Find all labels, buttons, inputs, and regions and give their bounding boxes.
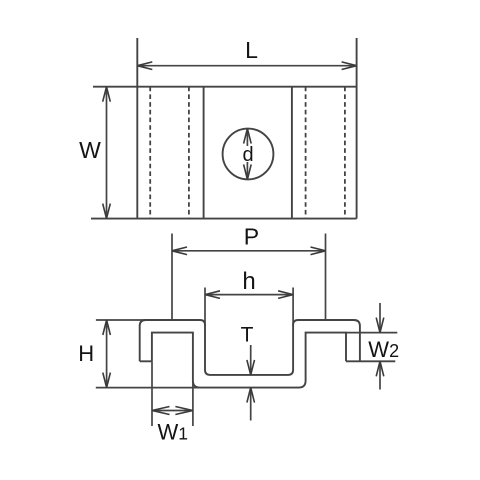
h extension line left — [204, 288, 206, 327]
dimension T lower arrow — [250, 388, 252, 421]
dimension T upper arrow — [250, 345, 252, 375]
dimension W1 line — [152, 410, 193, 412]
W2 top extension line — [346, 332, 397, 334]
top view: slot dashed line 3 — [305, 87, 307, 219]
W1 extension line left — [151, 361, 153, 426]
svg-text:W: W — [79, 137, 101, 163]
dimension W line — [106, 87, 108, 219]
section: outer top-surface contour — [140, 320, 360, 375]
top view: right bend line — [291, 87, 293, 219]
top view: slot dashed line 2 — [188, 87, 190, 219]
hole circle d — [223, 129, 274, 180]
top view: slot dashed line 1 — [149, 87, 151, 219]
svg-text:H: H — [78, 341, 94, 366]
top view: left bend line — [203, 87, 205, 219]
dimension h line — [205, 294, 293, 296]
W1 extension line right — [192, 381, 194, 426]
svg-text:W1: W1 — [158, 420, 189, 445]
H bottom extension line — [96, 387, 200, 389]
section: left leg end face — [140, 360, 152, 362]
P extension line right — [325, 234, 327, 321]
svg-text:d: d — [242, 144, 253, 166]
top view: top edge with W extension — [93, 86, 357, 88]
svg-text:L: L — [245, 37, 258, 63]
W2 bottom extension line / right leg end face — [346, 360, 395, 362]
P extension line left — [171, 234, 173, 321]
H top extension line — [96, 319, 146, 321]
dimension P line — [172, 250, 326, 252]
top view: right edge / L extension line — [356, 38, 358, 219]
top view: left edge / L extension line — [136, 38, 138, 219]
h extension line right — [292, 288, 294, 327]
svg-text:h: h — [242, 268, 255, 295]
dimension W2 lower arrow — [379, 361, 381, 389]
svg-text:P: P — [244, 224, 259, 250]
svg-text:W2: W2 — [368, 337, 399, 362]
dimension H line — [106, 320, 108, 388]
section: inner bottom-surface contour — [152, 333, 346, 388]
top view: slot dashed line 4 — [344, 87, 346, 219]
svg-text:T: T — [241, 323, 254, 346]
dimension L line — [137, 65, 356, 67]
dimension W2 upper arrow — [379, 303, 381, 333]
top view: bottom edge with W extension — [91, 218, 357, 220]
dimension d arrows — [246, 129, 248, 180]
